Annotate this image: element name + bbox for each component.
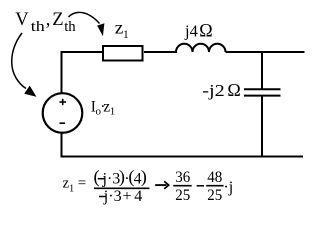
node junction	[261, 51, 263, 89]
minus sign	[60, 122, 66, 124]
svg-text:-j2: -j2	[202, 81, 225, 100]
arrow to z1 box	[69, 12, 105, 36]
eq denominator	[99, 188, 142, 205]
svg-text:25: 25	[207, 187, 222, 204]
wire source to bottom	[61, 132, 63, 158]
svg-text:1: 1	[123, 29, 129, 41]
svg-text:·j: ·j	[223, 179, 233, 196]
svg-text:Z: Z	[52, 10, 63, 30]
svg-text:th: th	[64, 19, 76, 35]
wire bottom	[61, 156, 303, 158]
svg-text:): )	[141, 167, 147, 188]
svg-text:(: (	[94, 167, 100, 188]
svg-text:1: 1	[110, 106, 116, 118]
svg-text:4: 4	[134, 188, 142, 205]
eq minus	[197, 185, 204, 187]
eq arrow	[155, 181, 169, 189]
wire capacitor branch lower	[261, 96, 263, 158]
inductor L	[176, 44, 226, 52]
svg-text:1: 1	[69, 183, 74, 194]
svg-text:j4: j4	[184, 22, 198, 41]
label z1 (box)	[115, 18, 129, 41]
svg-text:j·3: j·3	[102, 170, 121, 187]
wire top-left segment	[61, 51, 103, 53]
eq numerator	[94, 167, 147, 188]
eq fraction bar	[94, 187, 150, 189]
label Vth, Zth	[15, 10, 76, 35]
svg-text:+: +	[123, 188, 132, 205]
svg-text:Ω: Ω	[227, 80, 240, 100]
label Io.z1	[91, 99, 116, 118]
capacitor C	[244, 89, 281, 95]
eq fraction 36/25	[173, 169, 191, 204]
svg-text:48: 48	[207, 169, 222, 186]
wire box to inductor	[144, 51, 177, 53]
svg-text:Ω: Ω	[199, 21, 212, 42]
svg-text:j·3: j·3	[103, 188, 122, 205]
svg-text:th: th	[31, 19, 46, 35]
svg-text:36: 36	[175, 169, 190, 186]
svg-text:=: =	[78, 176, 86, 192]
wire inductor to open terminal	[226, 51, 305, 53]
label -j2 ohm	[202, 80, 240, 100]
arrow to source	[12, 33, 37, 97]
voltage source V1	[43, 93, 83, 133]
eq fraction 48/25	[206, 169, 223, 204]
impedance box z1	[103, 46, 143, 61]
svg-text:,: ,	[46, 10, 51, 30]
svg-text:V: V	[15, 10, 29, 30]
svg-text:25: 25	[175, 187, 190, 204]
plus sign	[60, 99, 67, 105]
equation z1 = (-j3)(4)/(-j3+4) -> 36/25 - 48/25 j	[63, 167, 234, 206]
wire left vertical upper	[61, 51, 63, 95]
label j4 ohm	[184, 21, 213, 42]
